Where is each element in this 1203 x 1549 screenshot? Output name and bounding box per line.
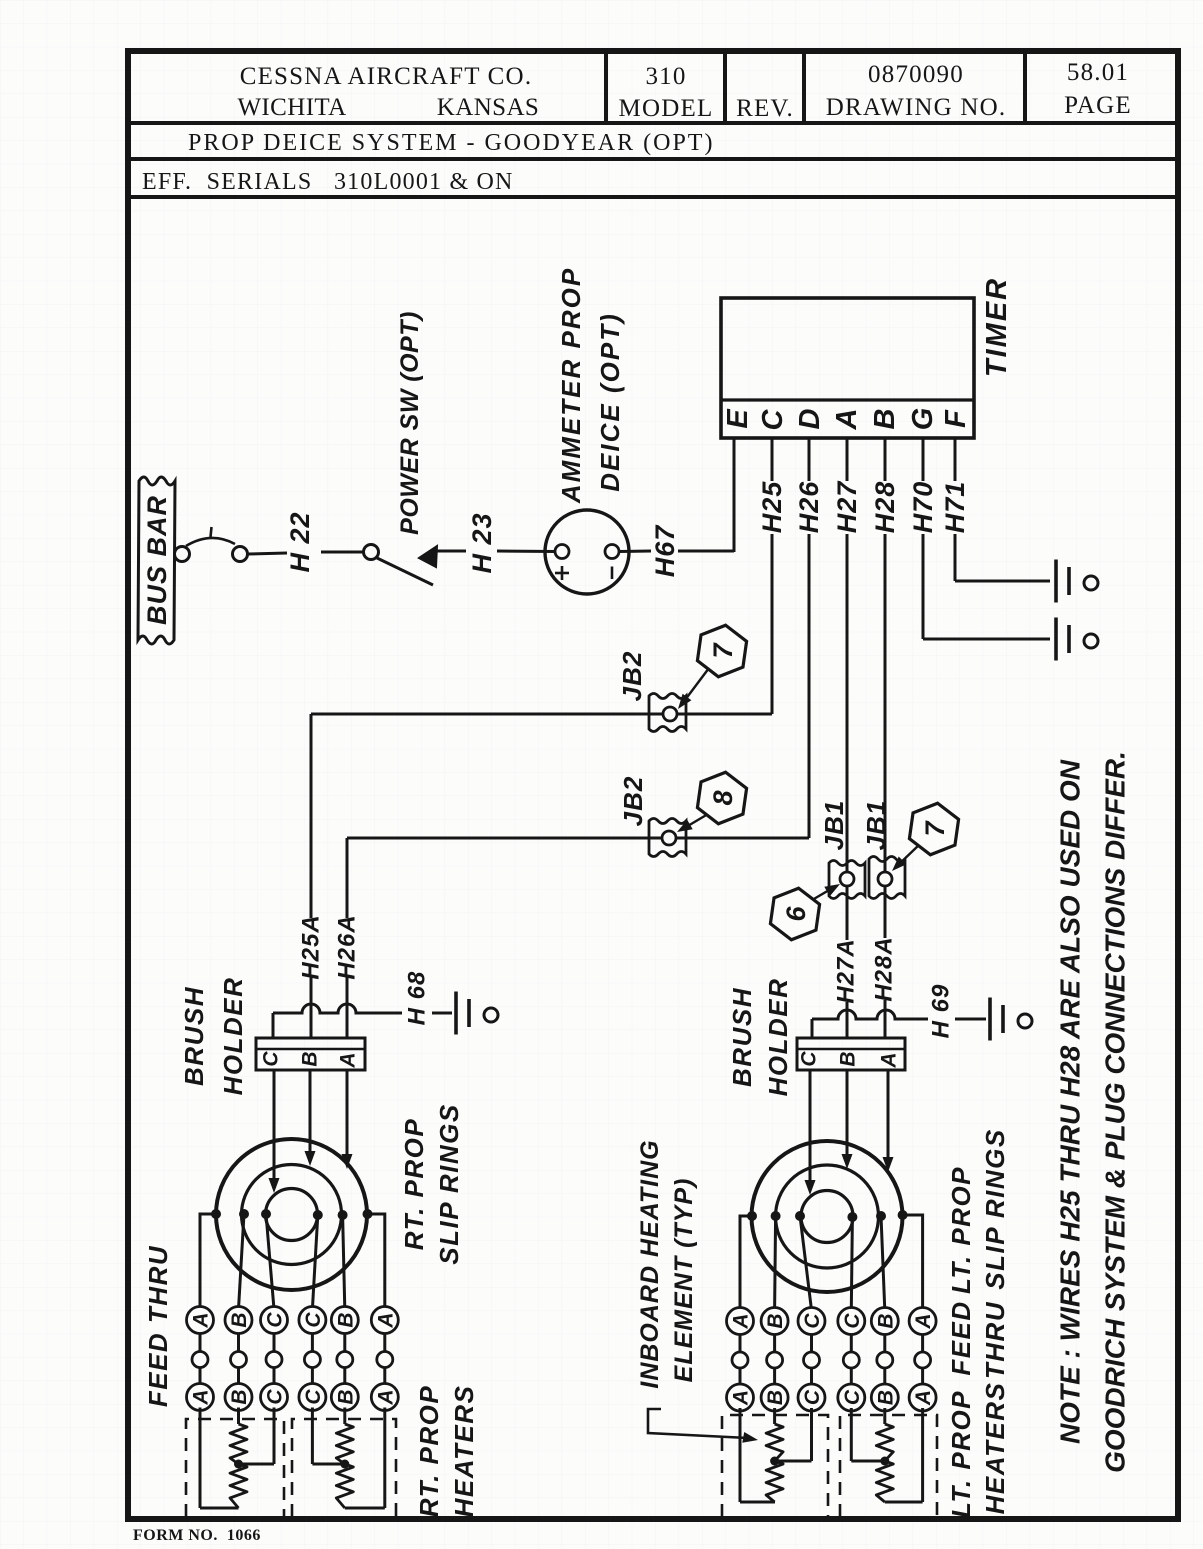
- svg-text:H 23: H 23: [467, 512, 497, 573]
- node: RT middle ring right tap: [343, 1215, 345, 1309]
- wire H28: [884, 438, 887, 481]
- wire H70: [922, 438, 925, 481]
- LT feed thru B1: [773, 1307, 776, 1390]
- switch POWER SW (OPT): [364, 545, 379, 560]
- svg-text:F: F: [940, 409, 972, 428]
- svg-text:H26: H26: [794, 481, 824, 534]
- svg-text:C: C: [260, 1051, 283, 1067]
- svg-text:REV.: REV.: [736, 95, 794, 122]
- bus bar: [138, 477, 175, 644]
- svg-text:LT. PROP: LT. PROP: [946, 1166, 976, 1294]
- svg-text:POWER SW (OPT): POWER SW (OPT): [396, 311, 424, 535]
- svg-text:C: C: [302, 1312, 325, 1328]
- ground plate long bar: [1054, 560, 1058, 603]
- svg-text:H25: H25: [757, 481, 787, 534]
- svg-text:EFF. SERIALS 310L0001 & ON: EFF. SERIALS 310L0001 & ON: [142, 169, 514, 195]
- svg-text:KANSAS: KANSAS: [437, 94, 539, 121]
- RT feed thru C3: [311, 1306, 314, 1390]
- circuit breaker CB: [175, 547, 190, 562]
- svg-text:H27: H27: [832, 480, 862, 534]
- RT feed thru B4: [343, 1306, 346, 1390]
- svg-text:C: C: [841, 1389, 864, 1405]
- svg-text:B: B: [334, 1389, 357, 1404]
- svg-text:58.01: 58.01: [1067, 59, 1129, 86]
- svg-text:ELEMENT (TYP): ELEMENT (TYP): [670, 1178, 698, 1383]
- svg-text:H27A: H27A: [833, 938, 860, 1003]
- wire H67: [619, 550, 651, 554]
- wire H25: [771, 438, 774, 481]
- svg-text:310: 310: [645, 63, 686, 90]
- wire H22: [248, 553, 287, 554]
- LT feed thru C3: [850, 1307, 853, 1390]
- svg-text:7: 7: [708, 642, 738, 659]
- RT feed thru C2: [273, 1306, 276, 1390]
- svg-text:A: A: [912, 1313, 935, 1329]
- brush holder RT: [256, 1038, 365, 1070]
- svg-text:LT. PROP: LT. PROP: [946, 1390, 976, 1518]
- node: LT middle ring right tap: [881, 1216, 885, 1310]
- title block row lines: [128, 121, 1178, 125]
- svg-text:HEATERS: HEATERS: [449, 1385, 479, 1518]
- svg-text:C: C: [264, 1389, 287, 1405]
- wire H27: [846, 438, 849, 481]
- RT feed thru A0: [199, 1306, 202, 1390]
- svg-text:RT. PROP: RT. PROP: [414, 1385, 444, 1517]
- svg-text:THRU: THRU: [980, 1301, 1010, 1379]
- wire H71: [954, 438, 957, 481]
- svg-text:TIMER: TIMER: [981, 277, 1013, 377]
- title block column lines: [604, 51, 608, 123]
- wire H69 ground lead: [811, 1019, 814, 1038]
- svg-text:DEICE (OPT): DEICE (OPT): [595, 312, 625, 491]
- svg-text:D: D: [794, 408, 826, 429]
- svg-text:C: C: [801, 1389, 824, 1405]
- svg-text:C: C: [302, 1389, 325, 1405]
- LT feed thru C2: [810, 1307, 813, 1390]
- ground circle: [1084, 634, 1098, 648]
- svg-text:B: B: [228, 1389, 251, 1404]
- svg-text:A: A: [878, 1052, 901, 1068]
- node: LT outer ring right tap: [903, 1215, 923, 1310]
- wire H68 ground lead: [272, 1013, 275, 1038]
- svg-text:A: A: [190, 1389, 213, 1405]
- plug pin callout 6: [769, 885, 822, 943]
- plug pin callout 7b: [908, 800, 961, 858]
- svg-text:B: B: [299, 1051, 322, 1066]
- svg-text:A: A: [912, 1390, 935, 1406]
- junction block JB1 (pin 6): [829, 861, 865, 899]
- svg-text:INBOARD HEATING: INBOARD HEATING: [636, 1139, 664, 1388]
- LT heater element 2: [850, 1408, 853, 1461]
- wire H26A: [346, 838, 349, 918]
- brush holder LT: [797, 1038, 905, 1070]
- svg-text:H 22: H 22: [285, 511, 315, 572]
- wire H27A: [846, 1002, 849, 1038]
- RT feed thru B1: [237, 1306, 240, 1390]
- node: LT outer ring left tap: [740, 1216, 752, 1310]
- svg-text:H 68: H 68: [404, 971, 431, 1026]
- LT heater dashed box 1: [722, 1415, 828, 1517]
- svg-text:7: 7: [920, 820, 950, 837]
- brush wire C to inner ring: [273, 1070, 276, 1184]
- node: LT middle ring left tap: [775, 1216, 776, 1310]
- svg-text:JB2: JB2: [617, 651, 647, 702]
- ground plate long bar: [1054, 618, 1058, 661]
- RT heater element 1: [199, 1408, 202, 1509]
- RT feed thru A5: [383, 1306, 386, 1390]
- svg-text:MODEL: MODEL: [619, 95, 714, 122]
- svg-text:SLIP RINGS: SLIP RINGS: [434, 1103, 464, 1264]
- svg-text:NOTE : WIRES H25 THRU H28 ARE: NOTE : WIRES H25 THRU H28 ARE ALSO USED …: [1055, 759, 1086, 1444]
- svg-text:SLIP RINGS: SLIP RINGS: [980, 1128, 1010, 1289]
- node: LT inner ring left tap: [800, 1216, 812, 1310]
- wire H25A: [310, 714, 313, 918]
- svg-text:B: B: [874, 1390, 897, 1405]
- svg-text:B: B: [874, 1313, 897, 1328]
- RT prop slip rings: [216, 1139, 367, 1290]
- wire H26: [808, 438, 811, 481]
- ground plate short bar: [467, 999, 471, 1027]
- svg-text:JB1: JB1: [861, 800, 891, 851]
- svg-text:JB2: JB2: [618, 776, 648, 827]
- svg-text:H28: H28: [870, 481, 900, 534]
- wire H23: [437, 550, 466, 553]
- LT prop slip rings: [752, 1141, 903, 1292]
- svg-text:A: A: [374, 1389, 397, 1405]
- svg-text:HEATERS: HEATERS: [980, 1382, 1010, 1515]
- svg-text:H 69: H 69: [928, 984, 955, 1039]
- svg-text:H67: H67: [650, 524, 680, 578]
- junction block JB2 (pin 7): [649, 694, 686, 732]
- svg-text:WICHITA: WICHITA: [237, 94, 346, 121]
- svg-text:BRUSH: BRUSH: [727, 987, 757, 1087]
- svg-text:A: A: [730, 1390, 753, 1406]
- ground plate long bar: [454, 992, 458, 1035]
- svg-text:GOODRICH SYSTEM & PLUG CONNECT: GOODRICH SYSTEM & PLUG CONNECTIONS DIFFE…: [1100, 751, 1131, 1473]
- svg-text:FEED: FEED: [946, 1300, 976, 1375]
- ground plate long bar: [988, 998, 992, 1041]
- svg-text:A: A: [190, 1312, 213, 1328]
- junction block JB2 (pin 8): [649, 819, 686, 857]
- svg-text:BRUSH: BRUSH: [179, 986, 209, 1086]
- svg-text:H25A: H25A: [298, 914, 325, 979]
- svg-text:A: A: [831, 409, 863, 431]
- svg-text:PAGE: PAGE: [1064, 92, 1132, 119]
- svg-text:PROP DEICE SYSTEM - GOODYEAR (: PROP DEICE SYSTEM - GOODYEAR (OPT): [188, 130, 714, 156]
- ground circle: [1084, 576, 1098, 590]
- svg-text:C: C: [841, 1313, 864, 1329]
- ammeter + terminal mark: [555, 572, 569, 575]
- node: RT inner ring left tap: [266, 1214, 274, 1309]
- ground plate short bar: [1001, 1005, 1005, 1033]
- ground plate short bar: [1067, 625, 1071, 653]
- svg-text:C: C: [264, 1312, 287, 1328]
- svg-text:H26A: H26A: [334, 914, 361, 979]
- LT brush wire A to outer ring: [887, 1070, 890, 1163]
- RT heater dashed box 1: [186, 1419, 284, 1517]
- svg-text:FEED THRU: FEED THRU: [143, 1245, 173, 1407]
- LT feed thru B4: [883, 1307, 886, 1390]
- wire H28A: [884, 1000, 887, 1038]
- LT feed thru A5: [921, 1307, 924, 1390]
- LT brush wire B to middle ring: [846, 1070, 849, 1160]
- svg-text:BUS BAR: BUS BAR: [142, 495, 172, 625]
- svg-text:RT. PROP: RT. PROP: [399, 1118, 429, 1250]
- svg-text:A: A: [730, 1313, 753, 1329]
- svg-text:HOLDER: HOLDER: [218, 977, 248, 1096]
- svg-text:H71: H71: [940, 481, 970, 534]
- ammeter - terminal mark: [611, 567, 614, 580]
- timer U1 box: [721, 298, 974, 438]
- svg-text:C: C: [798, 1051, 821, 1067]
- svg-text:B: B: [334, 1312, 357, 1327]
- ammeter prop deice (opt): [545, 510, 629, 594]
- LT heater element 1 (inboard heating element typ): [739, 1408, 742, 1502]
- svg-text:B: B: [764, 1390, 787, 1405]
- svg-text:HOLDER: HOLDER: [763, 978, 793, 1097]
- svg-text:C: C: [757, 408, 789, 430]
- brush wire B to middle ring: [309, 1070, 312, 1157]
- ground plate short bar: [1067, 567, 1071, 595]
- node: RT outer ring right tap: [368, 1214, 385, 1309]
- LT brush wire C to inner ring: [809, 1070, 812, 1186]
- svg-text:AMMETER PROP: AMMETER PROP: [556, 267, 586, 504]
- svg-text:0870090: 0870090: [868, 61, 964, 88]
- svg-text:CESSNA AIRCRAFT CO.: CESSNA AIRCRAFT CO.: [240, 63, 533, 90]
- plug pin callout 7: [696, 622, 749, 680]
- ground circle: [1018, 1014, 1032, 1028]
- plug pin callout 8: [696, 769, 749, 827]
- svg-text:H28A: H28A: [871, 936, 898, 1001]
- svg-text:B: B: [764, 1313, 787, 1328]
- svg-text:A: A: [374, 1312, 397, 1328]
- RT heater element 2: [311, 1408, 314, 1465]
- RT heater dashed box 2: [292, 1419, 396, 1517]
- svg-text:A: A: [337, 1052, 360, 1068]
- svg-text:JB1: JB1: [819, 800, 849, 851]
- ground circle: [484, 1008, 498, 1022]
- svg-text:C: C: [801, 1313, 824, 1329]
- node: RT middle ring left tap: [239, 1214, 245, 1309]
- svg-text:E: E: [722, 408, 754, 429]
- svg-text:6: 6: [781, 906, 811, 922]
- brush wire A to outer ring: [346, 1070, 349, 1160]
- node: RT inner ring right tap: [312, 1215, 317, 1309]
- LT heater dashed box 2: [840, 1415, 937, 1517]
- LT feed thru A0: [739, 1307, 742, 1390]
- svg-text:FORM NO. 1066: FORM NO. 1066: [133, 1527, 261, 1544]
- node: LT inner ring right tap: [851, 1217, 852, 1310]
- svg-text:8: 8: [708, 790, 738, 805]
- node: RT outer ring left tap: [200, 1214, 216, 1309]
- svg-text:G: G: [907, 408, 939, 431]
- svg-text:B: B: [869, 409, 901, 430]
- svg-text:B: B: [228, 1312, 251, 1327]
- svg-text:B: B: [837, 1051, 860, 1066]
- svg-text:DRAWING NO.: DRAWING NO.: [826, 94, 1007, 121]
- svg-text:H70: H70: [908, 481, 938, 534]
- junction block JB1 (pin 7): [869, 857, 905, 899]
